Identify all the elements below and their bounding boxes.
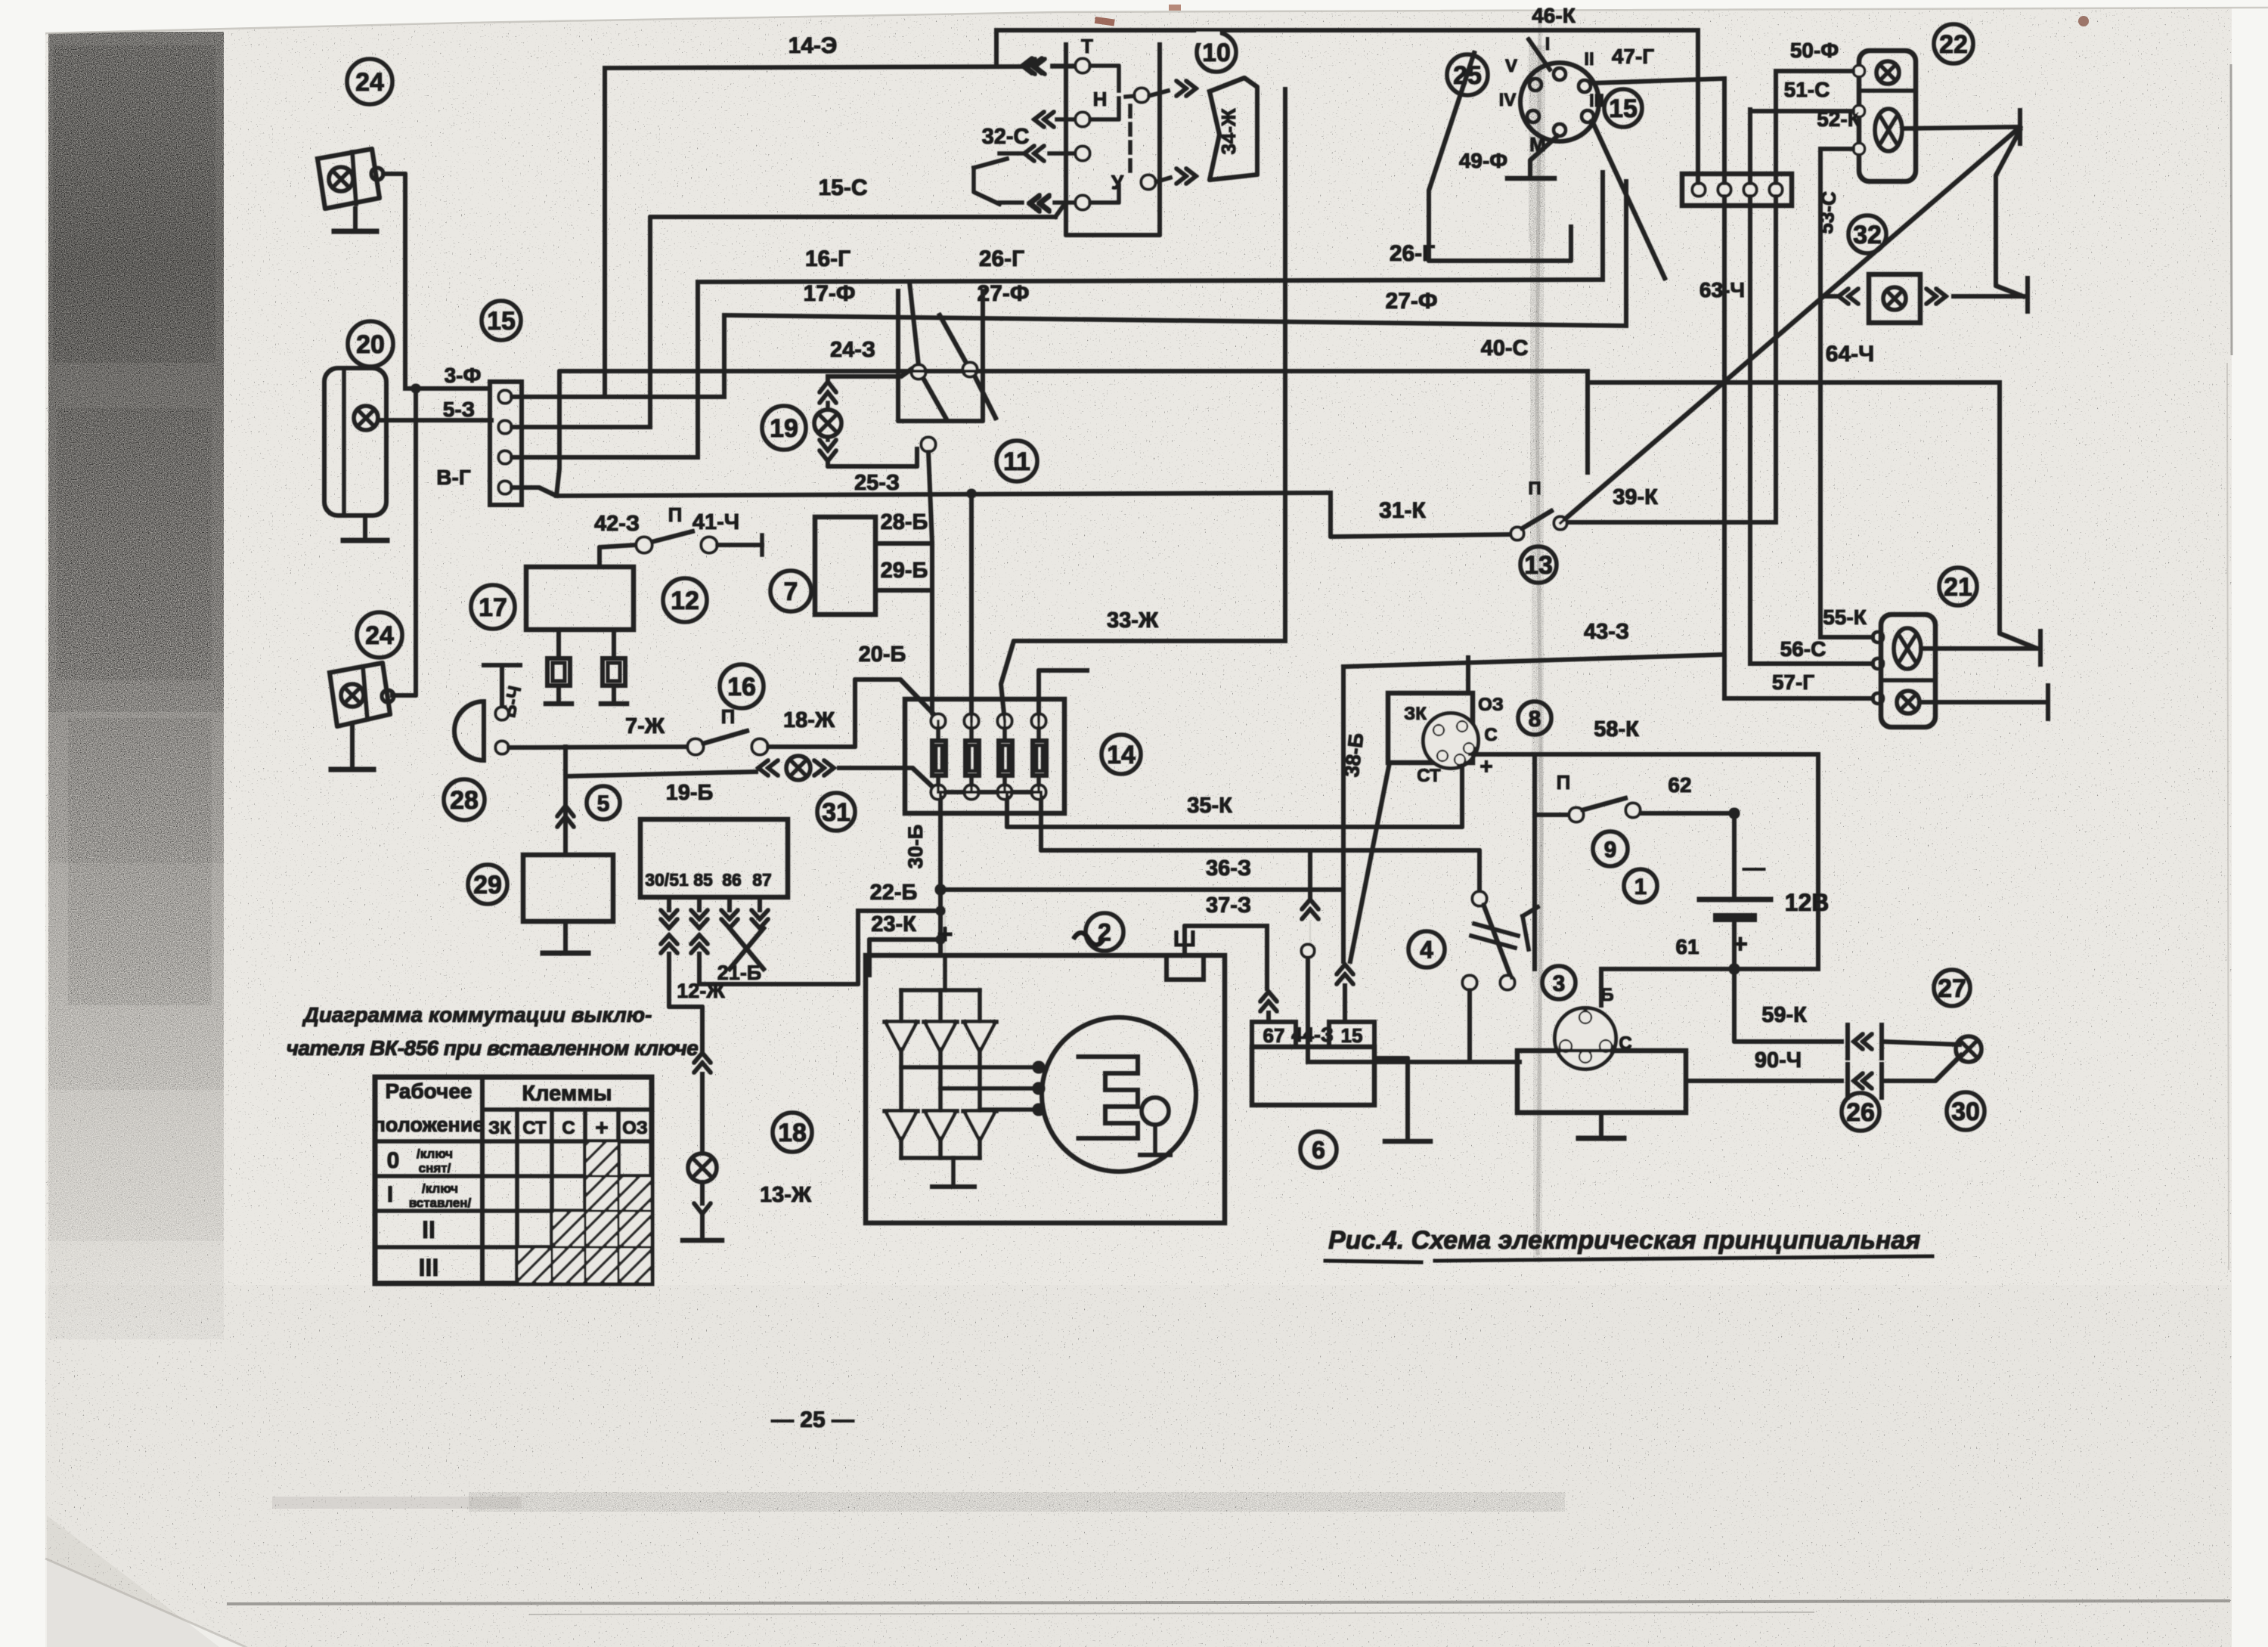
- svg-text:4: 4: [1420, 936, 1433, 964]
- wire from lamp 24 to riser: [383, 174, 405, 389]
- relay box 7: [815, 517, 875, 615]
- svg-text:87: 87: [752, 870, 772, 890]
- ignition coil connector 3: [1555, 1008, 1616, 1069]
- svg-text:24: 24: [365, 621, 394, 650]
- svg-text:14: 14: [1107, 741, 1136, 769]
- switch 12 blade: [652, 531, 692, 542]
- riser 51-S: [1749, 110, 1752, 184]
- wire 59-K: [1734, 969, 1842, 1042]
- arrows and wires of lamp 32: [1839, 289, 1858, 304]
- switch 11 blades: [923, 378, 946, 418]
- svg-text:28: 28: [450, 786, 479, 815]
- svg-text:Б: Б: [1600, 985, 1613, 1005]
- svg-text:+: +: [1733, 930, 1748, 958]
- svg-text:ОЗ: ОЗ: [1478, 695, 1504, 715]
- svg-text:I: I: [387, 1182, 393, 1207]
- designator 7: [770, 571, 811, 611]
- chassis bar for 64-Ch: [2039, 631, 2043, 664]
- indicator relay lamp 19 designator: [762, 406, 806, 450]
- cutout relay 6 box: [1252, 1047, 1374, 1105]
- designator 9: [1593, 831, 1628, 866]
- connector arrows above lamp 19: [820, 382, 836, 403]
- svg-text:20-Б: 20-Б: [859, 642, 906, 667]
- svg-text:32: 32: [1853, 221, 1882, 249]
- table horizontals: [482, 1108, 652, 1112]
- wire 14-E top bus: [605, 67, 1028, 68]
- designator 5: [587, 786, 620, 819]
- svg-text:67: 67: [1263, 1024, 1285, 1047]
- ground under lamp 24 bottom: [351, 726, 355, 769]
- voltage regulator box 29: [523, 855, 613, 921]
- wire 46-K top bus: [996, 29, 1698, 33]
- svg-text:22: 22: [1939, 30, 1968, 59]
- svg-text:I: I: [1545, 34, 1551, 54]
- fuse block 14 body: [905, 699, 1064, 813]
- svg-text:/ключ: /ключ: [417, 1147, 453, 1161]
- connector 25 circle: [1520, 63, 1599, 141]
- chassis bar top right: [2019, 110, 2022, 144]
- svg-text:6: 6: [1312, 1137, 1325, 1164]
- switch 11 pivot contacts: [912, 365, 925, 379]
- switch 16 contacts: [688, 739, 703, 754]
- switch 4 upper contact: [1473, 892, 1486, 906]
- switch 9 (II) with terminal 62: [1539, 813, 1569, 817]
- svg-text:С: С: [1484, 725, 1497, 745]
- switch 13 blade: [1521, 511, 1551, 529]
- lamp 24 housing (bottom left): [330, 663, 390, 726]
- svg-text:ЗК: ЗК: [1404, 704, 1427, 724]
- switch 11 designator: [996, 441, 1037, 481]
- svg-text:Диаграмма коммутации выклю-: Диаграмма коммутации выклю-: [302, 1003, 652, 1026]
- svg-text:Клеммы: Клеммы: [522, 1082, 612, 1106]
- svg-text:18-Ж: 18-Ж: [783, 708, 835, 732]
- designator 2: [1086, 913, 1123, 951]
- svg-text:64-Ч: 64-Ч: [1826, 342, 1874, 367]
- fuse 3: [998, 714, 1012, 728]
- wire 40-S bus: [556, 371, 1588, 496]
- riser strip pin3 down to 56-S: [1749, 196, 1752, 664]
- tail lamp 22 housing: [1859, 51, 1916, 181]
- fuse 2 under box 17: [612, 630, 616, 658]
- ground under coil: [1600, 1113, 1603, 1138]
- starter relay box 19-B: [640, 819, 788, 897]
- switch 13 contacts: [1511, 528, 1523, 540]
- terminal 15 cell: [1329, 1022, 1374, 1047]
- wire 16-G / 26-G bus: [698, 280, 1603, 282]
- switch 10 internal links: [1089, 66, 1119, 91]
- lamp 32 bulb: [1883, 287, 1906, 310]
- svg-text:32-С: 32-С: [982, 125, 1030, 149]
- wire 7-Zh to switch 16: [508, 747, 689, 748]
- svg-text:Рабочее: Рабочее: [386, 1079, 472, 1103]
- svg-text:16-Г: 16-Г: [805, 246, 850, 271]
- svg-text:31-К: 31-К: [1379, 498, 1426, 523]
- horn designator 28: [444, 779, 485, 820]
- designator 1: [1624, 869, 1657, 902]
- svg-text:15: 15: [1609, 94, 1637, 123]
- table verticals: [481, 1077, 485, 1283]
- connector 15 (left strip) designator: [482, 301, 521, 340]
- svg-text:0: 0: [387, 1148, 400, 1173]
- diode bridge row 1: [885, 1020, 918, 1024]
- diagonal wire 38-B from connector 8: [1350, 763, 1390, 961]
- battery 12V: [1733, 813, 1737, 896]
- svg-text:27-Ф: 27-Ф: [1386, 289, 1438, 314]
- wire from chassis bar to lamp 32 loop: [1996, 130, 2023, 296]
- riser of 26-G right end: [1601, 172, 1605, 280]
- svg-text:+: +: [1479, 754, 1493, 779]
- svg-text:П: П: [1528, 478, 1541, 499]
- svg-text:В-Г: В-Г: [436, 466, 471, 489]
- lamp 24 (front turn signal, bottom) designator: [357, 612, 402, 658]
- svg-text:90-Ч: 90-Ч: [1755, 1048, 1802, 1073]
- wire 43-Z: [1343, 655, 1724, 667]
- lamp 22 pins: [1854, 66, 1864, 76]
- hatched cells rowII S + OZ: [553, 1212, 584, 1246]
- svg-text:III: III: [1589, 91, 1604, 111]
- svg-text:15: 15: [487, 307, 516, 336]
- svg-text:Т: Т: [1081, 35, 1093, 57]
- svg-text:IV: IV: [1499, 90, 1517, 110]
- lamp 19 bulb: [814, 410, 841, 437]
- svg-text:86: 86: [722, 870, 742, 890]
- svg-text:С: С: [562, 1118, 575, 1138]
- svg-text:34-Ж: 34-Ж: [1217, 108, 1240, 155]
- connector arrows on 15-S: [1055, 204, 1064, 217]
- instrument lamp (31) bulb: [786, 756, 810, 780]
- switch 4 lower contacts: [1463, 976, 1476, 989]
- svg-text:53-С: 53-С: [1814, 190, 1841, 235]
- chassis bar B-Ch for horn: [484, 664, 520, 667]
- hatched cell row0 +: [587, 1143, 617, 1175]
- riser feeding fuse 2 from V-G bus: [970, 494, 974, 721]
- connector 25 shell outline: [1429, 53, 1571, 261]
- designator 16: [720, 664, 764, 708]
- switch 10 third contact: [1076, 147, 1089, 160]
- vertical from switch 11 pin to fuse 1: [928, 451, 937, 718]
- horn pins: [496, 707, 508, 720]
- switch 10 terminal T: [1076, 59, 1089, 73]
- svg-text:9: 9: [1604, 837, 1617, 862]
- svg-text:— 25 —: — 25 —: [771, 1407, 854, 1432]
- designator 4: [1408, 931, 1445, 967]
- long diagonal wire 63-Ch: [1560, 127, 2020, 523]
- designator 8: [1518, 701, 1551, 735]
- switch 11 housing: [898, 291, 983, 421]
- wire from fuse 4 to switch 4: [1041, 792, 1479, 892]
- phase wires to stator: [901, 1066, 1039, 1070]
- designator 26: [1842, 1093, 1879, 1131]
- designator 21: [1939, 568, 1977, 605]
- svg-text:63-Ч: 63-Ч: [1699, 278, 1745, 302]
- wire 33-Zh from fuse 3: [1001, 641, 1285, 721]
- svg-text:15: 15: [1341, 1024, 1363, 1047]
- end bar of 41-Ch: [761, 535, 764, 555]
- svg-text:29-Б: 29-Б: [881, 559, 928, 583]
- svg-text:положение: положение: [373, 1113, 485, 1136]
- svg-text:—: —: [1743, 856, 1765, 881]
- wires to stop lamp 27: [1882, 1042, 1960, 1045]
- lamp 22 round bulb: [1876, 61, 1899, 84]
- svg-text:56-С: 56-С: [1780, 637, 1826, 661]
- fuse 2: [965, 714, 978, 728]
- wire 31-K from V-G bus: [1331, 493, 1515, 537]
- connector bars on 90-Ch: [1846, 1064, 1850, 1097]
- svg-text:14-Э: 14-Э: [789, 33, 838, 58]
- license lamp 32 box: [1869, 274, 1920, 323]
- svg-text:85: 85: [693, 870, 713, 890]
- crossed wires to 21-B: [730, 928, 764, 969]
- arrows to connector 34-Zh: [1148, 91, 1168, 96]
- wire 30-B down from fuse 1: [939, 792, 943, 955]
- connector 25 pins: [1554, 68, 1566, 80]
- designator 25: [1447, 54, 1488, 95]
- wire 55-K: [1820, 636, 1873, 639]
- riser 46-K to strip: [1696, 30, 1700, 184]
- wire 57-G: [1724, 697, 1873, 701]
- designator 18: [773, 1113, 812, 1152]
- fuse 4 top link: [1039, 670, 1087, 721]
- lamp bulb in 24 bottom: [341, 684, 364, 707]
- svg-text:13: 13: [1524, 551, 1553, 580]
- connector 8 circle: [1424, 714, 1478, 768]
- ground under lamp 24 top: [354, 209, 358, 231]
- svg-text:28-Б: 28-Б: [881, 510, 928, 534]
- riser of 27-F right end: [1625, 181, 1628, 326]
- connector arrows before lamp 31: [758, 760, 778, 776]
- svg-text:12В: 12В: [1785, 889, 1830, 916]
- svg-text:47-Г: 47-Г: [1612, 45, 1654, 68]
- svg-text:СТ: СТ: [522, 1118, 547, 1138]
- riser strip pin2 down to 57-G: [1723, 196, 1727, 698]
- wire 22-B: [858, 909, 940, 913]
- wire 35-K from fuse 3 to +: [1007, 765, 1462, 827]
- svg-text:П: П: [721, 705, 736, 728]
- ground under lamp 20: [364, 515, 367, 540]
- switch 11 feeds from buses: [909, 282, 919, 365]
- svg-text:24: 24: [355, 68, 384, 97]
- svg-text:II: II: [1584, 49, 1594, 70]
- svg-text:27: 27: [1938, 974, 1966, 1003]
- wire 90-Ch: [1686, 1079, 1842, 1083]
- svg-text:43-З: 43-З: [1584, 620, 1629, 644]
- svg-text:15-С: 15-С: [818, 175, 867, 200]
- switch 10 designator: [1197, 33, 1236, 72]
- svg-text:25-З: 25-З: [854, 471, 900, 495]
- fuse 1 under box 17: [557, 630, 561, 658]
- svg-text:ОЗ: ОЗ: [622, 1118, 648, 1138]
- svg-text:42-З: 42-З: [594, 512, 640, 536]
- svg-text:5-З: 5-З: [443, 398, 475, 421]
- wire 25-Z: [828, 449, 917, 466]
- svg-text:II: II: [422, 1216, 435, 1243]
- svg-text:вставлен/: вставлен/: [409, 1196, 472, 1210]
- riser 43-Z to ignition connector 8: [1467, 658, 1470, 693]
- horizontal connector strip 15 right: [1604, 89, 1642, 127]
- svg-text:+: +: [595, 1116, 609, 1141]
- designator 22: [1934, 24, 1973, 63]
- wire from lamp to fuse 1 bottom: [839, 768, 938, 792]
- wire junction 7-Zh to 19-B relay riser: [565, 747, 756, 776]
- terminal ~ of alternator: [1074, 933, 1104, 945]
- wire pin1 to risers: [511, 395, 724, 399]
- svg-text:/ключ: /ключ: [422, 1181, 458, 1196]
- svg-text:чателя ВК-856 при вставленном: чателя ВК-856 при вставленном ключе: [287, 1036, 699, 1060]
- connector pins 1-4: [499, 391, 511, 403]
- wire 37-Z from Sh terminal: [1185, 926, 1267, 955]
- riser 50-F: [1774, 71, 1778, 184]
- switch 10 terminal H: [1076, 113, 1089, 126]
- connector 8 pins: [1433, 725, 1444, 735]
- wire 12-Zh to lamp 18: [669, 954, 702, 1051]
- lamp 21 oval bulb: [1894, 628, 1921, 669]
- diode rails: [900, 990, 903, 1022]
- riser to terminal 67 of cutout 6: [1266, 926, 1269, 989]
- svg-text:58-К: 58-К: [1594, 717, 1639, 741]
- wire 29-B from box 7: [875, 589, 932, 593]
- svg-text:16: 16: [727, 673, 756, 701]
- svg-text:1: 1: [1634, 875, 1647, 899]
- svg-text:7-Ж: 7-Ж: [625, 714, 665, 738]
- svg-text:3: 3: [1553, 971, 1566, 996]
- ignition coil box: [1517, 1051, 1686, 1113]
- connector 15 strip body: [490, 382, 522, 505]
- riser strip pin4 down to 39-K: [1774, 196, 1778, 522]
- svg-text:30/51: 30/51: [645, 870, 689, 890]
- riser 44-Z to connector pin: [1306, 958, 1310, 1062]
- svg-text:46-К: 46-К: [1532, 4, 1576, 27]
- connector 25 key stub: [1529, 39, 1550, 70]
- diode bridge row 2: [885, 1110, 918, 1113]
- svg-text:ЗК: ЗК: [488, 1118, 511, 1138]
- wire stub row3 to tag: [999, 201, 1022, 205]
- pin of lamp 24 bottom: [382, 690, 394, 702]
- connector bars on 59-K: [1846, 1025, 1850, 1058]
- lamp 24 (front turn signal, top) designator: [347, 59, 392, 104]
- wire 3-F from riser to connector pin1 row: [405, 387, 490, 391]
- svg-text:13-Ж: 13-Ж: [760, 1183, 812, 1207]
- fuse 1 link verticals: [937, 721, 940, 741]
- wire 52-K: [1820, 147, 1854, 151]
- svg-text:31: 31: [822, 798, 850, 827]
- svg-text:35-К: 35-К: [1187, 794, 1232, 818]
- lamp 21 pins: [1873, 632, 1883, 642]
- svg-text:7: 7: [784, 577, 798, 606]
- wire 28-B from box 7: [875, 542, 932, 546]
- lamp 22 oval bulb: [1875, 109, 1902, 151]
- fuse 4: [1032, 714, 1046, 728]
- designator 31: [817, 793, 855, 831]
- designator 14: [1101, 735, 1141, 774]
- svg-text:55-К: 55-К: [1823, 605, 1867, 629]
- svg-text:22-Б: 22-Б: [870, 881, 918, 905]
- svg-text:52-К: 52-К: [1817, 107, 1861, 131]
- wire 51-S: [1750, 110, 1854, 113]
- stator winding: [1077, 1057, 1138, 1138]
- connector arrows below lamp 19: [826, 437, 830, 440]
- svg-text:27-Ф: 27-Ф: [978, 281, 1030, 306]
- svg-text:26-Г: 26-Г: [979, 246, 1024, 271]
- alternator box 2: [866, 955, 1225, 1223]
- wire from oval 22 to chassis: [1905, 127, 2017, 128]
- junction to lower lamp 24 riser: [411, 384, 420, 393]
- svg-text:СТ: СТ: [1417, 766, 1441, 786]
- collector tag 32-S: [974, 168, 999, 204]
- wire 17-F / 27-F bus: [724, 315, 1626, 326]
- svg-text:Н: Н: [1093, 88, 1108, 110]
- svg-text:29: 29: [473, 871, 502, 899]
- hatched cells rowIII ST S + OZ: [519, 1249, 550, 1282]
- connector arrow on 12-Zh: [694, 1053, 711, 1073]
- stator circle: [1042, 1017, 1196, 1172]
- designator 17: [471, 585, 515, 629]
- wire pin3 to 16-G riser: [511, 456, 698, 460]
- wire 50-F: [1776, 70, 1854, 73]
- terminal 67 cell: [1252, 1022, 1296, 1047]
- svg-text:30: 30: [1951, 1097, 1980, 1126]
- svg-text:3-Ф: 3-Ф: [445, 364, 482, 387]
- designator 27: [1934, 970, 1970, 1006]
- connector fork below lamp 18: [701, 1182, 705, 1203]
- wire 18-Zh: [767, 680, 937, 747]
- fuse 1: [931, 714, 945, 728]
- relay box 17: [526, 567, 634, 630]
- lamp bulb in 24 top: [329, 167, 353, 191]
- stop lamp 27 bulb: [1956, 1036, 1981, 1062]
- wire 64-Ch: [1588, 381, 2000, 385]
- svg-text:40-С: 40-С: [1481, 336, 1529, 361]
- ground of relay 6: [1374, 1058, 1408, 1141]
- svg-text:23-К: 23-К: [871, 912, 916, 936]
- connector arrows on 14-E: [1025, 59, 1045, 74]
- wire 49-F to chassis bar: [1530, 136, 1557, 178]
- switch 10 housing: [1066, 45, 1160, 235]
- svg-text:30-Б: 30-Б: [904, 825, 927, 868]
- rear lamp 21 housing: [1881, 615, 1935, 727]
- svg-text:37-З: 37-З: [1206, 893, 1251, 918]
- riser to terminal 15 of cutout 6: [1342, 890, 1346, 961]
- wire 42-Z from box 17 to switch 12: [600, 545, 635, 567]
- ignition switch connector 8 box: [1388, 693, 1473, 763]
- svg-text:49-Ф: 49-Ф: [1459, 149, 1507, 172]
- svg-text:17-Ф: 17-Ф: [804, 281, 856, 306]
- svg-text:57-Г: 57-Г: [1772, 670, 1814, 694]
- designator 6: [1300, 1132, 1337, 1168]
- switch 13 designator: [1520, 546, 1557, 583]
- svg-text:5: 5: [597, 791, 610, 816]
- diode bottom bus: [901, 1156, 980, 1160]
- svg-text:24-З: 24-З: [830, 338, 875, 362]
- svg-text:П: П: [1557, 771, 1571, 794]
- riser 17-F to pin1 wire: [723, 315, 727, 397]
- svg-text:59-К: 59-К: [1761, 1003, 1807, 1027]
- wire from pin III into bundle: [1592, 121, 1665, 278]
- svg-text:36-З: 36-З: [1206, 856, 1251, 881]
- designator 32: [1848, 215, 1886, 253]
- lamp 18 bulb: [688, 1153, 717, 1182]
- wire 44-Z: [1308, 1060, 1520, 1064]
- table outer frame: [375, 1077, 652, 1283]
- svg-text:11: 11: [1003, 447, 1030, 476]
- svg-text:51-С: 51-С: [1784, 78, 1830, 101]
- svg-text:снят/: снят/: [419, 1161, 451, 1175]
- svg-text:III: III: [419, 1254, 439, 1281]
- svg-text:26: 26: [1846, 1098, 1875, 1127]
- hatched cells rowI + OZ: [587, 1178, 617, 1209]
- connector arrows after lamp 31: [814, 760, 834, 776]
- svg-text:33-Ж: 33-Ж: [1107, 608, 1159, 633]
- designator 12: [663, 578, 707, 622]
